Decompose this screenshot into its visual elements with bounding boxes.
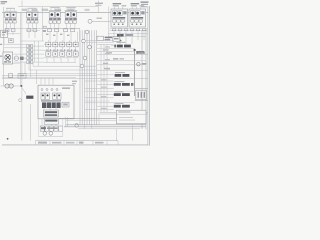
small parts under bus CD	[46, 34, 48, 35]
label r3	[113, 58, 118, 59]
solenoid valve SV4 ports	[65, 21, 68, 24]
tiny mark bottom left	[7, 138, 9, 140]
solenoid valve SV2 bar	[27, 18, 30, 20]
wire rule r1	[97, 47, 135, 49]
bus line 5	[78, 128, 140, 130]
header zone tick 1	[22, 9, 28, 11]
node junction dots row	[46, 50, 47, 51]
wire left H0	[20, 40, 44, 42]
solenoid valve SV3 bar	[49, 18, 53, 20]
border frame bottom line	[2, 144, 148, 146]
wire mid H1	[2, 74, 97, 76]
header text mid-right	[95, 3, 103, 4]
junction box JB1	[97, 36, 103, 40]
wire rule r7c	[85, 100, 110, 102]
wire rule r3	[97, 60, 146, 62]
solenoid valve SV1 coil b	[12, 14, 14, 16]
solenoid valve SV2 coil a	[28, 14, 30, 16]
wire trunk bottom left2	[30, 104, 32, 141]
zone divider line	[42, 7, 44, 41]
valve box SV5	[111, 9, 128, 27]
valve box SV6	[129, 9, 146, 27]
label W04 dark	[117, 34, 124, 37]
header zone tick 2	[32, 9, 38, 11]
wire 4.5F lead	[22, 88, 26, 95]
valve SV6 bar	[131, 17, 144, 19]
wire entry stub 1	[0, 44, 2, 45]
solenoid valve SV2 body	[27, 12, 32, 17]
diode matrix row1 pins	[47, 40, 49, 42]
wire trunk left pair	[19, 13, 21, 86]
wire rule r6b	[85, 87, 114, 89]
wire TB2 drops	[41, 119, 43, 126]
sheet title text top-left	[1, 1, 8, 2]
wire B down	[28, 32, 30, 39]
border frame left line	[3, 7, 5, 86]
title text 3	[66, 142, 75, 144]
wire matrix collector	[44, 61, 76, 63]
connector label CN-23	[114, 83, 121, 86]
inline connector J3	[18, 74, 26, 79]
diode matrix mid wire	[44, 49, 78, 51]
title cell ticks	[49, 141, 51, 145]
node balloon N3	[82, 39, 86, 43]
title text 1	[38, 142, 47, 144]
connector label CN-21	[114, 45, 116, 48]
motor M1 symbol	[5, 54, 11, 60]
label r3b	[103, 63, 108, 64]
node dark junction	[134, 49, 136, 51]
solenoid valve SV3 coil b	[57, 13, 60, 16]
breather port B2	[49, 132, 53, 136]
valve SV6 coil boxes	[131, 11, 135, 16]
header zone tick 5	[68, 9, 75, 11]
solenoid valve SV4 bar	[65, 18, 69, 20]
wire SV2 drops	[27, 23, 29, 28]
valve SV5 bar	[113, 17, 126, 19]
wire SV4 drops	[66, 23, 68, 28]
wire FG left vertical	[108, 7, 110, 41]
title strip top rule	[35, 140, 118, 142]
wire H right	[8, 33, 21, 35]
wire A down	[6, 32, 8, 36]
breather port B1	[43, 132, 47, 136]
connector box CN-H	[1, 30, 8, 37]
wire left low	[2, 63, 20, 65]
solenoid valve SV3 body	[49, 12, 54, 17]
inline connector J2	[9, 74, 13, 78]
terminal row TB2	[40, 126, 44, 131]
wire FG row3	[108, 36, 146, 38]
solenoid valve SV1 bar	[5, 18, 8, 20]
node bus A	[5, 27, 81, 29]
component small box left	[9, 39, 14, 43]
wire matrix drops	[46, 58, 48, 63]
border frame right double line	[147, 6, 149, 146]
node balloon N7	[75, 124, 78, 127]
lamp L1	[137, 62, 140, 65]
wire rule r6c	[85, 90, 135, 92]
label r2	[106, 52, 112, 53]
node bus CD	[44, 27, 80, 29]
component K1	[14, 56, 18, 60]
node bus B	[26, 30, 40, 32]
wire mid H2	[2, 76, 76, 78]
diode matrix row1 wire	[44, 44, 78, 46]
connector label CN-25	[114, 105, 121, 108]
node balloon N5	[83, 56, 87, 60]
wire bundle bottom crossings	[98, 112, 100, 124]
diode matrix row2 wire	[44, 57, 78, 59]
solenoid valve SV3 ports	[49, 21, 52, 24]
wire trunk bottom left	[21, 86, 23, 141]
header zone tick 4	[55, 9, 62, 11]
wire drop to title 2	[132, 125, 134, 141]
solenoid valve SV4 coil b	[73, 13, 76, 16]
pilot valve bar	[41, 100, 61, 101]
wire rule r6	[135, 87, 148, 89]
wire rule r5	[2, 77, 148, 79]
component left of SV3	[43, 26, 46, 28]
connector CN-G1	[130, 29, 133, 31]
wire bend 1	[33, 62, 96, 66]
bus line 2	[66, 119, 146, 121]
bus line 4	[64, 126, 146, 128]
wire rule r7b	[85, 97, 114, 99]
header rule	[18, 6, 98, 8]
bus line 3	[66, 124, 146, 126]
solenoid valve SV1 body	[5, 12, 10, 17]
inline connector pair P1	[5, 84, 9, 88]
wire drop to title 1	[116, 129, 118, 141]
wire CD downs	[49, 32, 51, 42]
wire bend 2	[29, 62, 96, 70]
label r4	[104, 68, 110, 69]
label r7d	[101, 108, 107, 109]
wire right of cluster pair	[64, 117, 66, 127]
resistor pack R1	[136, 90, 147, 100]
sheet number text top-right	[141, 1, 149, 3]
valve SV6 ports	[131, 20, 134, 23]
solenoid valve SV1 pins	[6, 9, 8, 11]
valve SV5 pins	[113, 7, 115, 9]
wire rule r4b	[97, 74, 114, 76]
border frame top line	[2, 12, 148, 14]
connector CN-C1	[48, 29, 52, 32]
solenoid valve SV4 coil a	[67, 13, 70, 16]
diode matrix row1 boxes	[46, 42, 51, 47]
solenoid valve SV2 pins	[28, 9, 30, 11]
valve SV6 coil b	[136, 12, 139, 15]
wire P1	[1, 85, 21, 87]
motor M1 box	[3, 52, 13, 64]
title text 2	[52, 142, 62, 144]
wire rule r2a	[97, 50, 135, 52]
valve SV5 ports	[113, 20, 116, 23]
solenoid valve SV4 pins	[66, 8, 68, 10]
label r2a	[103, 49, 109, 50]
valve SV5 coil b	[118, 12, 121, 15]
node balloon N2	[85, 30, 89, 34]
solenoid valve SV3 coil a	[51, 13, 54, 16]
node FG dot	[120, 40, 122, 42]
wire SV1 drops	[6, 23, 8, 28]
valve SV5 coil a	[113, 12, 116, 15]
diode matrix row2 boxes	[46, 52, 51, 56]
wire left verticals	[34, 41, 36, 62]
valve block lower dark	[44, 110, 59, 117]
valve SV6 label	[131, 3, 140, 4]
node balloon N1	[88, 19, 92, 23]
wire bend 3	[25, 62, 96, 73]
wire FG downs	[113, 32, 115, 41]
bus line 1	[59, 117, 132, 119]
valve block ports	[43, 108, 45, 110]
connector label CN-22	[115, 74, 122, 77]
wire stub x36	[35, 70, 37, 84]
label r5b	[101, 79, 106, 80]
wire left H1	[4, 43, 27, 45]
wire into box top	[40, 78, 42, 85]
label 4.5F	[26, 96, 33, 99]
valve unit inner labels	[62, 88, 70, 89]
connector CN-F1	[112, 29, 115, 31]
valve unit box	[38, 85, 74, 119]
valve SV6 coil a	[131, 12, 134, 15]
wire FG row2	[108, 33, 148, 35]
wire SV3 drops	[50, 23, 52, 28]
connector CN-B1	[27, 29, 31, 32]
header zone tick 6	[85, 9, 90, 11]
wire bundle	[79, 30, 81, 125]
wire matrix inter-row stubs	[47, 47, 49, 52]
note box	[116, 110, 146, 124]
note text	[118, 111, 130, 112]
valve SV5 label	[113, 3, 122, 4]
wire rule r8 double	[100, 111, 148, 113]
junction block JB2	[44, 119, 58, 125]
solenoid valve SV3 pins	[50, 8, 52, 10]
wire rule r3b	[97, 64, 146, 66]
pilot valve PV1	[41, 93, 45, 99]
terminal strip TB1	[27, 45, 33, 48]
wire TB1 left leads	[13, 53, 26, 55]
label r7b	[101, 96, 106, 97]
wire top center bus	[88, 20, 111, 22]
wire H down	[3, 37, 5, 44]
node balloon N6	[80, 64, 84, 68]
wire label text	[97, 18, 103, 19]
valve SV6 pins	[131, 7, 133, 9]
wire left H2	[4, 47, 27, 49]
solenoid valve SV2 coil b	[34, 14, 36, 16]
connector CN-D1	[64, 29, 68, 32]
valve block dark row	[42, 102, 46, 108]
solenoid valve SV2 ports	[27, 21, 30, 23]
motor M1 terminals	[4, 61, 7, 62]
wire rule r2	[97, 54, 148, 56]
connector CN-A1	[5, 29, 9, 32]
wire rule r1b	[97, 44, 114, 46]
wire rule r7cc	[85, 102, 135, 104]
wire rule r7	[135, 99, 148, 101]
solenoid valve SV1 ports	[5, 21, 8, 23]
wire right verticals	[141, 30, 143, 129]
label rule texts	[105, 46, 110, 47]
node bus FG	[110, 28, 148, 30]
wire rule r4	[97, 69, 148, 71]
connector label CN-24	[114, 93, 121, 96]
wire rule r5b	[85, 80, 114, 82]
wire drop from bus	[79, 28, 81, 41]
title text 4	[79, 142, 84, 144]
small box SB1	[113, 37, 120, 42]
solenoid valve SV1 coil a	[6, 14, 8, 16]
solenoid valve SV4 body	[65, 12, 70, 17]
label r6b	[101, 87, 107, 88]
wire entry stub 2	[0, 56, 2, 57]
title text 5	[95, 142, 104, 144]
wire double rule	[86, 40, 114, 42]
pilot valve PV2	[53, 93, 57, 99]
wire stub x30	[29, 62, 31, 77]
label right of box	[72, 81, 77, 82]
wire rule r7d	[85, 109, 114, 111]
node balloon N4	[88, 45, 92, 49]
valve SV5 coil boxes	[113, 11, 117, 16]
wire TB1 right leads	[33, 45, 44, 47]
wire under cluster	[39, 136, 63, 138]
wire dark vertical	[134, 50, 136, 96]
header zone tick 3	[42, 9, 49, 11]
wire bundle right pair	[100, 44, 102, 113]
